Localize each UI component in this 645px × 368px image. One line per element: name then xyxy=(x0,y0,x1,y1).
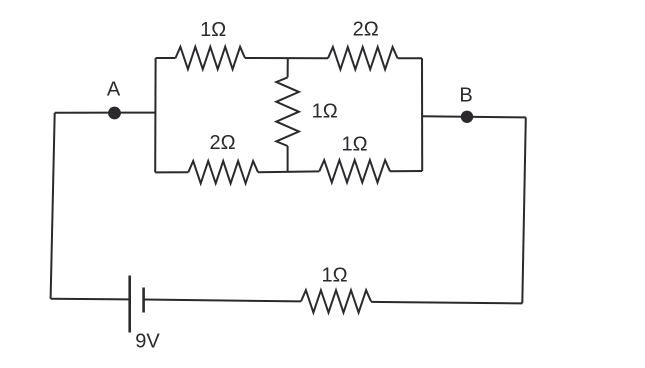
wire: outer left vertical xyxy=(51,113,55,299)
resistor R2 2ohm (top-right) xyxy=(328,47,398,69)
svg-text:1Ω: 1Ω xyxy=(200,19,226,41)
wire: A node horizontal wire xyxy=(55,112,156,114)
svg-text:1Ω: 1Ω xyxy=(312,101,338,123)
wire: series resistor to right bottom corner xyxy=(371,302,522,304)
resistor R5 1ohm (bottom-right) xyxy=(319,160,390,182)
wire: bridge left vertical xyxy=(154,58,156,172)
wire: B node horizontal wire xyxy=(422,116,526,117)
svg-text:A: A xyxy=(107,79,121,101)
battery 9V xyxy=(130,276,144,333)
wire: battery to series resistor xyxy=(144,300,301,302)
svg-text:1Ω: 1Ω xyxy=(322,265,348,287)
svg-text:1Ω: 1Ω xyxy=(342,134,368,156)
wire: bottom rail right stub xyxy=(390,170,422,172)
resistor R6 1ohm (series, bottom) xyxy=(301,290,371,312)
wire: top rail left stub xyxy=(156,57,176,59)
node B dot xyxy=(461,111,473,123)
wire: middle vertical bottom stub xyxy=(287,146,289,172)
wire: top rail right stub xyxy=(398,57,423,59)
resistor R4 2ohm (bottom-left) xyxy=(188,161,258,183)
resistor R1 1ohm (top-left) xyxy=(176,47,246,69)
wire: bottom left segment to battery xyxy=(51,298,130,301)
wire: bottom rail middle segment xyxy=(258,170,319,173)
svg-text:9V: 9V xyxy=(135,331,160,353)
node A dot xyxy=(108,107,121,120)
svg-text:B: B xyxy=(459,84,472,106)
wire: top rail middle segment xyxy=(245,57,328,59)
wire: outer right vertical xyxy=(522,117,526,303)
wire: bridge right vertical xyxy=(421,58,423,171)
wire: bottom rail left stub xyxy=(155,171,188,173)
wire: middle vertical top stub xyxy=(287,58,289,77)
svg-text:2Ω: 2Ω xyxy=(353,18,379,40)
resistor R3 1ohm (middle vertical) xyxy=(276,77,299,146)
svg-text:2Ω: 2Ω xyxy=(210,132,236,154)
